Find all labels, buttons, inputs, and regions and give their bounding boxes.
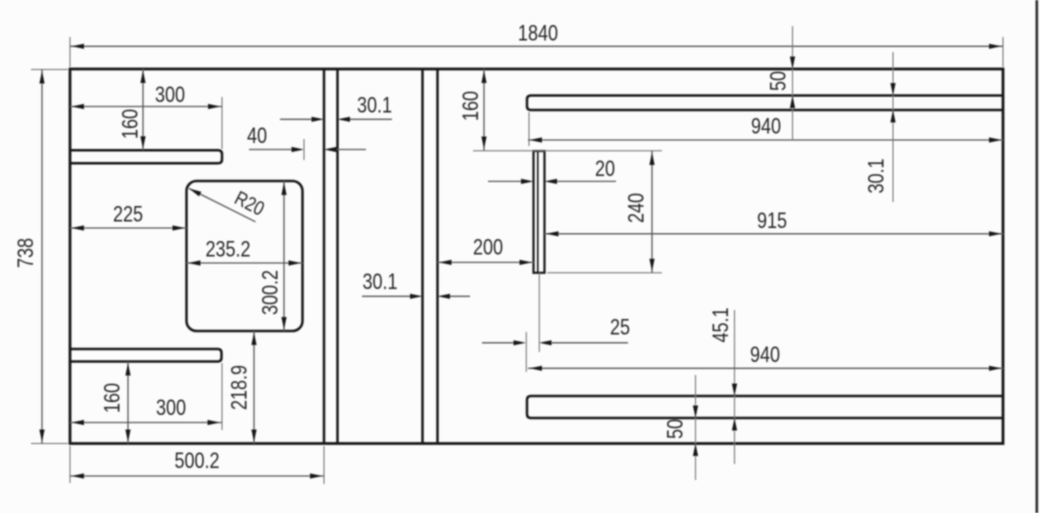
svg-text:30.1: 30.1 [357, 94, 392, 118]
dim 300 top-left tab length [70, 84, 222, 149]
dim 225 to cutout [70, 203, 187, 230]
dim 20 bar width [488, 158, 616, 184]
dim 940 top bar length [528, 112, 1003, 146]
dim 218.9 cutout to bottom [228, 331, 256, 444]
svg-text:25: 25 [610, 316, 630, 340]
top-left tab slot [70, 150, 222, 163]
svg-text:160: 160 [119, 109, 143, 139]
bottom-right bar 940x45.1 [527, 396, 1003, 418]
svg-text:915: 915 [757, 210, 787, 234]
svg-text:738: 738 [15, 238, 39, 268]
svg-text:300.2: 300.2 [259, 270, 283, 315]
svg-text:940: 940 [751, 115, 781, 139]
svg-text:500.2: 500.2 [174, 450, 219, 474]
top-right bar 940x30.1 [527, 96, 1003, 111]
dim 160 top-left [119, 69, 145, 150]
dim 40 cutout to groove [247, 125, 366, 160]
dim 160 bottom-left [101, 362, 130, 444]
svg-text:1840: 1840 [518, 22, 558, 46]
svg-text:30.1: 30.1 [865, 158, 889, 193]
groove line pair A left [324, 69, 338, 444]
svg-text:45.1: 45.1 [710, 307, 734, 342]
dim 50 bottom bar offset [664, 375, 698, 480]
svg-text:40: 40 [247, 125, 267, 149]
dim 1840 overall width [70, 22, 1003, 67]
dim 738 overall height [15, 70, 68, 444]
svg-text:240: 240 [625, 193, 649, 223]
dim 30.1 groove B width [362, 271, 470, 299]
svg-text:50: 50 [664, 419, 688, 439]
svg-text:300: 300 [156, 397, 186, 421]
svg-text:218.9: 218.9 [228, 365, 252, 410]
rounded rectangle cutout R20 [187, 181, 303, 331]
svg-text:225: 225 [113, 203, 143, 227]
svg-text:940: 940 [750, 344, 780, 368]
svg-text:30.1: 30.1 [362, 271, 397, 295]
drawing frame border right [1036, 0, 1039, 513]
dim 30.1 top bar thickness [865, 52, 895, 202]
dim 940 bottom bar length [528, 344, 1003, 371]
dim 300 bottom-left tab length [70, 363, 222, 430]
dim 45.1 bottom bar thickness [710, 307, 737, 464]
svg-text:160: 160 [101, 383, 125, 413]
svg-text:160: 160 [460, 91, 484, 121]
dim 50 top bar offset [767, 26, 795, 140]
radius leader R20 [189, 186, 268, 222]
dim 30.1 groove A width [280, 94, 392, 122]
middle narrow bar 20x240 [534, 151, 545, 273]
dim 300.2 cutout height [259, 181, 286, 331]
groove line pair B left-middle [423, 69, 438, 444]
svg-text:200: 200 [473, 236, 503, 260]
dim 235.2 cutout width [187, 238, 303, 265]
dim 160 right of grooves [460, 69, 662, 151]
svg-text:235.2: 235.2 [205, 238, 250, 262]
part outline 1840x738 panel [70, 69, 1003, 444]
svg-text:20: 20 [595, 158, 615, 182]
dim 25 bar to bottom bar [482, 273, 630, 372]
svg-text:50: 50 [767, 71, 791, 91]
dim 200 groove to bar [438, 236, 534, 265]
dim 915 bar to right edge [545, 210, 1004, 237]
bottom-left tab slot [70, 349, 222, 362]
dim 500.2 left section [70, 446, 324, 484]
svg-text:300: 300 [155, 84, 185, 108]
dim 240 bar height [547, 151, 662, 273]
